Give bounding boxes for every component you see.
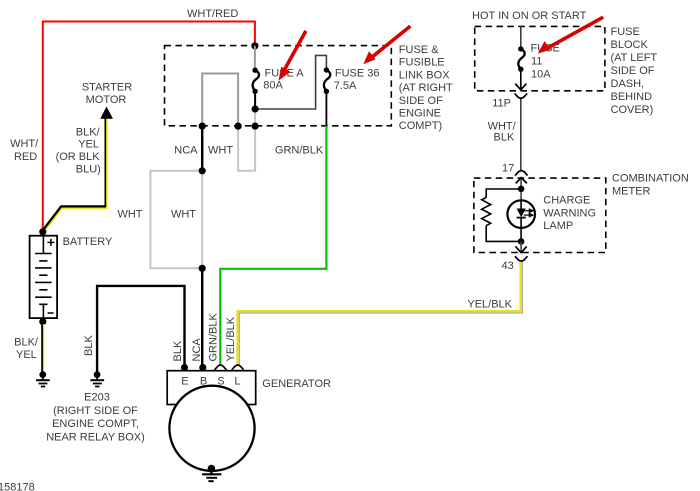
- svg-text:BLK: BLK: [83, 335, 95, 356]
- svg-text:SIDE OF: SIDE OF: [611, 65, 655, 77]
- wire GRN/BLK: [220, 126, 326, 365]
- fuse 11 symbol: [518, 46, 525, 89]
- svg-text:METER: METER: [612, 186, 651, 198]
- connector 43 male arrow: [516, 246, 527, 252]
- svg-text:MOTOR: MOTOR: [86, 94, 127, 106]
- connector generator L cap: [232, 365, 244, 370]
- svg-text:FUSIBLE: FUSIBLE: [399, 57, 445, 69]
- svg-text:LINK BOX: LINK BOX: [399, 69, 450, 81]
- wire BLK/YEL battery to ground: [42, 322, 43, 372]
- node generator B: [199, 364, 206, 371]
- svg-text:11: 11: [531, 56, 542, 68]
- svg-text:BLK: BLK: [172, 340, 184, 361]
- svg-text:GENERATOR: GENERATOR: [262, 378, 331, 390]
- wire gray to FUSE A: [254, 46, 256, 70]
- connector 11P female cup: [515, 93, 528, 98]
- svg-text:17: 17: [502, 162, 514, 174]
- svg-text:YEL/BLK: YEL/BLK: [467, 299, 512, 311]
- label FUSE BLOCK (AT LEFT SIDE OF DASH, BEHIND COVER): [611, 26, 658, 116]
- battery: [30, 236, 57, 318]
- node meter bottom: [518, 238, 525, 245]
- svg-text:RED: RED: [14, 151, 37, 163]
- svg-text:NEAR RELAY BOX): NEAR RELAY BOX): [46, 431, 145, 443]
- connector 11P male arrow: [515, 84, 526, 90]
- svg-text:BLK: BLK: [494, 131, 515, 143]
- svg-text:(RIGHT SIDE OF: (RIGHT SIDE OF: [53, 405, 138, 417]
- wire WHT/RED (battery to fuse box): [43, 22, 255, 233]
- svg-text:CHARGE: CHARGE: [543, 195, 590, 207]
- red arrow to fuse 11: [538, 17, 604, 53]
- svg-text:BLK/: BLK/: [14, 336, 39, 348]
- wire NCA black: [201, 126, 203, 171]
- gray loop inside fuse box: [202, 74, 238, 127]
- label BLK/YEL lower: [14, 336, 39, 361]
- node battery negative: [39, 318, 46, 325]
- svg-text:WHT: WHT: [171, 208, 196, 220]
- svg-text:BATTERY: BATTERY: [63, 236, 113, 248]
- svg-text:80A: 80A: [263, 80, 283, 92]
- generator box: [167, 371, 256, 405]
- label COMBINATION METER: [612, 172, 689, 197]
- node generator E: [181, 364, 188, 371]
- label BLK/YEL (OR BLK BLU): [56, 126, 101, 175]
- label FUSE & FUSIBLE LINK BOX: [399, 44, 453, 132]
- LED wire and triangle: [520, 200, 522, 208]
- gray WHT loop left of NCA: [150, 171, 202, 268]
- label FUSE 11 10A: [531, 43, 560, 81]
- red arrow to fuse 36: [363, 26, 410, 64]
- fuse A symbol: [252, 68, 259, 110]
- node fuse box top: [251, 42, 258, 49]
- wire to 43 connector: [520, 241, 522, 252]
- svg-text:NCA: NCA: [191, 338, 203, 362]
- svg-text:FUSE: FUSE: [611, 26, 640, 38]
- svg-text:(AT RIGHT: (AT RIGHT: [399, 82, 453, 94]
- svg-text:HOT IN ON OR START: HOT IN ON OR START: [472, 10, 587, 22]
- svg-text:WHT: WHT: [208, 144, 233, 156]
- svg-text:GRN/BLK: GRN/BLK: [208, 313, 220, 362]
- fuse 36 symbol: [324, 67, 331, 126]
- svg-text:LAMP: LAMP: [543, 220, 573, 232]
- svg-text:7.5A: 7.5A: [334, 80, 357, 92]
- svg-text:BLK/: BLK/: [76, 126, 101, 138]
- wire black to generator B: [201, 268, 203, 367]
- nodes on fuse box bottom edge: [199, 123, 206, 130]
- svg-text:SIDE OF: SIDE OF: [399, 95, 443, 107]
- generator terminal letters: [181, 375, 240, 387]
- svg-text:11P: 11P: [492, 97, 511, 109]
- node battery positive: [39, 228, 46, 235]
- ground (generator): [202, 465, 221, 481]
- node WHT junction: [199, 265, 206, 272]
- node NCA junction: [199, 167, 206, 174]
- connector 17 female cap: [515, 171, 528, 176]
- svg-text:WHT/: WHT/: [10, 138, 39, 150]
- wire into fuse 11: [520, 26, 522, 49]
- svg-text:BLU): BLU): [76, 164, 101, 176]
- wire WHT/BLK fuse block to meter: [520, 99, 522, 171]
- svg-text:WHT: WHT: [117, 208, 142, 220]
- svg-text:YEL: YEL: [16, 349, 37, 361]
- connector 17 male arrow: [516, 178, 527, 184]
- svg-text:FUSE &: FUSE &: [399, 44, 439, 56]
- LED light arrows: [524, 209, 533, 217]
- wire 17 to LED: [520, 178, 522, 209]
- svg-text:NCA: NCA: [174, 144, 198, 156]
- label CHARGE WARNING LAMP: [543, 195, 596, 233]
- svg-text:DASH,: DASH,: [611, 78, 645, 90]
- arrow to starter motor: [100, 107, 113, 119]
- fuse & fusible link box (dashed): [165, 46, 392, 126]
- wire YEL/BLK meter to generator: [238, 260, 523, 365]
- combination meter box (dashed): [474, 178, 606, 252]
- wire BLK E203 ground: [97, 286, 184, 372]
- gray WHT segment: [201, 171, 203, 268]
- svg-text:BLOCK: BLOCK: [611, 39, 649, 51]
- svg-text:ENGINE: ENGINE: [399, 108, 441, 120]
- svg-text:BEHIND: BEHIND: [611, 91, 653, 103]
- ground (battery): [36, 371, 50, 386]
- svg-text:COMBINATION: COMBINATION: [612, 172, 689, 184]
- resistor loop: [482, 189, 521, 241]
- svg-text:YEL: YEL: [78, 139, 99, 151]
- connector 43 female cup: [515, 256, 528, 261]
- svg-text:FUSE 36: FUSE 36: [335, 67, 380, 79]
- red arrow to fuse A: [279, 31, 306, 81]
- wire fuse A to fuse 36: [255, 55, 326, 109]
- generator circle: [169, 386, 254, 471]
- svg-text:COVER): COVER): [611, 104, 654, 116]
- svg-text:WHT/RED: WHT/RED: [187, 8, 238, 20]
- svg-text:WARNING: WARNING: [543, 207, 596, 219]
- svg-text:(OR BLK: (OR BLK: [56, 151, 101, 163]
- svg-text:COMPT): COMPT): [399, 120, 442, 132]
- svg-text:STARTER: STARTER: [82, 82, 132, 94]
- svg-text:ENGINE COMPT,: ENGINE COMPT,: [52, 418, 139, 430]
- ground E203: [90, 371, 104, 386]
- svg-text:L: L: [234, 375, 240, 387]
- node meter top: [518, 186, 525, 193]
- svg-text:E: E: [181, 375, 188, 387]
- svg-text:10A: 10A: [531, 69, 551, 81]
- wire BLK/YEL (battery to starter motor): [43, 116, 107, 231]
- label STARTER MOTOR: [82, 82, 132, 107]
- svg-text:E203: E203: [84, 392, 110, 404]
- fuse block box (dashed): [475, 26, 605, 90]
- svg-text:43: 43: [502, 260, 514, 272]
- svg-text:(AT LEFT: (AT LEFT: [611, 52, 658, 64]
- svg-text:YEL/BLK: YEL/BLK: [225, 316, 237, 361]
- svg-text:GRN/BLK: GRN/BLK: [275, 144, 324, 156]
- gray U wire WHT: [238, 126, 255, 171]
- svg-text:158178: 158178: [0, 482, 35, 491]
- connector generator S cap: [215, 365, 227, 370]
- node below fuse A: [252, 105, 259, 112]
- label WHT/RED left: [10, 138, 39, 163]
- gray stub below fuse A: [254, 109, 256, 126]
- LED circle U1: [507, 200, 535, 228]
- label E203 (RIGHT SIDE OF ENGINE COMPT, NEAR RELAY BOX): [46, 392, 145, 444]
